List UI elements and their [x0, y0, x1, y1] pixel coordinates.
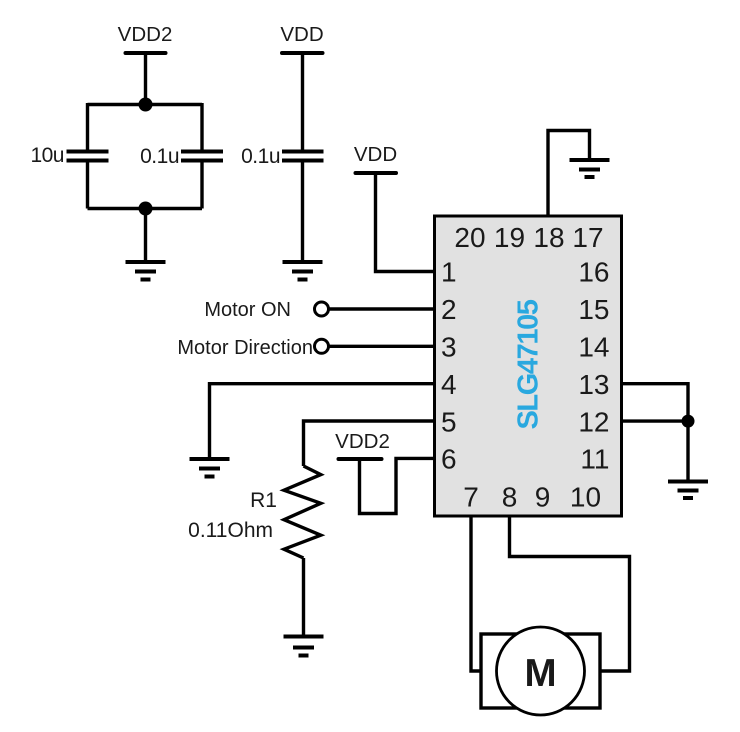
wire pin 8 to motor — [510, 517, 630, 672]
wire pin 12 to junction — [622, 419, 689, 422]
wire pin 7 to motor — [471, 517, 481, 672]
svg-text:0.1u: 0.1u — [140, 145, 179, 168]
svg-text:M: M — [524, 652, 556, 695]
motor M1 body — [481, 634, 600, 708]
wire C3 lower lead — [301, 161, 304, 262]
wire C2 lower lead — [200, 161, 203, 209]
wire pin 13 to junction — [622, 384, 689, 421]
svg-text:15: 15 — [578, 294, 609, 325]
svg-text:17: 17 — [572, 222, 603, 253]
power symbol VDD (cap rail) — [280, 23, 323, 53]
svg-text:0.1u: 0.1u — [241, 145, 280, 168]
ground (R1) — [284, 637, 324, 656]
svg-text:19: 19 — [494, 222, 525, 253]
ground (pin 4) — [190, 459, 230, 477]
terminal circle Motor ON — [315, 302, 329, 316]
svg-text:10u: 10u — [30, 144, 64, 167]
resistor R1 — [284, 466, 321, 558]
wire C1 upper lead — [86, 103, 89, 151]
wire C1 lower lead — [86, 161, 89, 209]
wire Motor Direction to pin 3 — [329, 345, 435, 348]
svg-text:18: 18 — [533, 222, 564, 253]
power symbol VDD (pin 1 supply) — [354, 143, 397, 173]
power symbol VDD2 (rail for decoupling caps) — [118, 23, 173, 53]
power symbol VDD2 (pin 6 sense supply) — [335, 430, 390, 459]
wire C2 upper lead — [200, 103, 203, 151]
wire Motor ON to pin 2 — [329, 307, 435, 310]
wire VDD2 rail stub — [144, 53, 147, 105]
wire VDD to pin 1 — [376, 173, 436, 272]
wire bottom bus between C1 and C2 — [88, 207, 203, 210]
wire VDD2 to pin 6 — [360, 458, 436, 513]
svg-text:6: 6 — [441, 444, 457, 475]
junction dot bottom — [139, 202, 153, 216]
svg-text:4: 4 — [441, 369, 457, 400]
motor M1 rotor circle — [497, 627, 585, 715]
svg-text:2: 2 — [441, 294, 457, 325]
svg-text:VDD2: VDD2 — [335, 430, 390, 453]
wire pin 4 to ground — [210, 384, 436, 458]
wire R1 to ground — [302, 558, 305, 636]
terminal circle Motor Direction — [315, 339, 329, 353]
svg-text:20: 20 — [454, 222, 485, 253]
svg-text:10: 10 — [570, 482, 601, 513]
svg-text:5: 5 — [441, 407, 457, 438]
ground (pins 12-13) — [668, 482, 708, 499]
wire pin 18 to top ground — [548, 131, 590, 217]
ground (VDD cap) — [283, 262, 323, 280]
svg-text:0.11Ohm: 0.11Ohm — [188, 519, 273, 542]
svg-text:3: 3 — [441, 332, 457, 363]
svg-text:Motor ON: Motor ON — [204, 299, 291, 321]
svg-text:16: 16 — [578, 257, 609, 288]
svg-text:7: 7 — [463, 482, 479, 513]
svg-text:VDD: VDD — [280, 23, 323, 46]
svg-text:8: 8 — [502, 482, 518, 513]
svg-text:Motor Direction: Motor Direction — [177, 337, 313, 359]
op-amp U1 SLG47105 body — [435, 216, 622, 516]
svg-text:R1: R1 — [250, 489, 277, 512]
ground (decoupling caps) — [126, 262, 166, 280]
svg-text:12: 12 — [578, 407, 609, 438]
capacitor C3 (0.1u) — [282, 152, 324, 161]
capacitor C2 (0.1u) — [181, 152, 223, 161]
svg-text:14: 14 — [578, 332, 609, 363]
ground (pin 18) — [570, 160, 610, 177]
junction dot pins 12-13 — [682, 415, 695, 428]
wire top bus between C1 and C2 — [88, 103, 203, 106]
wire VDD to C3 — [301, 53, 304, 151]
svg-text:SLG47105: SLG47105 — [513, 299, 545, 429]
svg-text:9: 9 — [535, 482, 551, 513]
wire pin 5 to R1 — [304, 421, 436, 466]
wire to ground from cap bus — [144, 209, 147, 263]
capacitor C1 (10u) — [67, 152, 109, 161]
wire junction to ground — [686, 421, 689, 481]
junction dot top — [139, 98, 153, 112]
svg-text:1: 1 — [441, 257, 457, 288]
svg-text:VDD2: VDD2 — [118, 23, 173, 46]
svg-text:11: 11 — [580, 444, 609, 475]
svg-text:VDD: VDD — [354, 143, 397, 166]
svg-text:13: 13 — [578, 369, 609, 400]
